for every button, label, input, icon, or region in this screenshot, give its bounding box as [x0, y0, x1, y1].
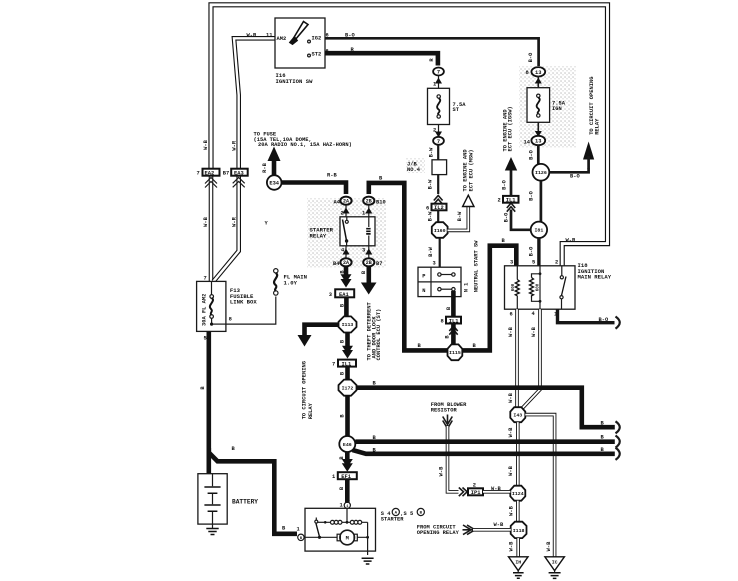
svg-text:W-B: W-B: [546, 541, 552, 551]
svg-text:IH: IH: [515, 559, 521, 565]
fusible link FL MAIN 1.0Y: [274, 269, 307, 296]
connector E34: [267, 175, 282, 190]
svg-text:W-B: W-B: [491, 486, 501, 492]
svg-text:I172: I172: [342, 385, 354, 391]
svg-text:2B: 2B: [366, 260, 372, 266]
ignition switch I16 box: [275, 18, 325, 68]
svg-text:20A RADIO NO.1, 15A HAZ-HORN): 20A RADIO NO.1, 15A HAZ-HORN): [258, 142, 352, 148]
svg-text:I115: I115: [449, 350, 461, 356]
pin stub arrows into starter relay: [343, 205, 373, 217]
wire B-W oval to J/B No.4: [428, 145, 438, 160]
hook 1: [616, 421, 620, 433]
wire R: ST2 to ST fuse oval: [325, 53, 438, 65]
node I172 octagon: [339, 380, 357, 396]
wire B-W J/B to IL2 with hollow arrow: [427, 175, 442, 205]
wire W-B I124 to I118: [508, 501, 518, 522]
F13 fusible link box: [197, 281, 226, 331]
svg-text:5: 5: [204, 336, 207, 342]
svg-text:AM2: AM2: [277, 36, 287, 42]
svg-text:5: 5: [532, 260, 535, 266]
battery: [198, 474, 258, 524]
wire B: F13 pin5 down, elbow right, down, right to starter terminal: [200, 331, 297, 533]
wire I172 to E46: [339, 396, 347, 437]
starter left terminal: [297, 527, 305, 541]
svg-text:2: 2: [498, 198, 501, 204]
branch I126 to circuit opening relay arrow: [549, 142, 594, 180]
node I126: [533, 164, 550, 181]
svg-text:I43: I43: [513, 413, 522, 419]
svg-text:B-W: B-W: [457, 211, 463, 221]
svg-text:RELAY: RELAY: [594, 118, 600, 135]
ignition main relay I18 box: [505, 260, 576, 318]
label IG2 6 B-O: [326, 33, 356, 39]
ignition switch wedge lever: [290, 22, 309, 45]
svg-text:7: 7: [437, 139, 440, 145]
ground IH: [509, 557, 529, 579]
label I16 IGNITION SW: [276, 72, 314, 85]
svg-text:RELAY: RELAY: [308, 402, 314, 419]
wire E46 to EF1 with double arrow: [339, 452, 353, 472]
wire I160 to neutral start sw: [428, 238, 440, 267]
label W-R 11 AM2: [247, 33, 273, 39]
starter internals: switch: [315, 518, 325, 539]
svg-text:M: M: [346, 536, 349, 542]
svg-text:B-O: B-O: [529, 190, 535, 200]
svg-text:IL1: IL1: [449, 318, 459, 324]
hook 2: [616, 436, 620, 448]
pin arrow down into oval 7 lower: [433, 125, 442, 138]
svg-text:8: 8: [229, 317, 232, 323]
starter relay label: [310, 227, 334, 240]
oval pin A4 2A: [334, 197, 352, 206]
oval pin 2B B10: [363, 197, 386, 206]
wire IL2 to I160: [428, 210, 439, 223]
svg-text:IL1: IL1: [342, 361, 352, 367]
svg-text:TO CIRCUIT OPENING: TO CIRCUIT OPENING: [302, 361, 308, 419]
svg-text:OPENING RELAY: OPENING RELAY: [417, 530, 460, 536]
svg-text:ST2: ST2: [312, 52, 322, 58]
wire I43 right down to ground IC: [525, 415, 554, 557]
svg-text:W-B: W-B: [494, 522, 504, 528]
svg-text:A4: A4: [334, 199, 341, 205]
svg-text:W-R: W-R: [231, 140, 237, 150]
label TO FUSE (15A TEL,10A DOME, 20A RADIO NO.1, 15A HAZ-HORN): [254, 132, 352, 149]
connector 8 IL1: [441, 317, 462, 335]
starter box: [305, 508, 376, 551]
svg-text:3: 3: [433, 261, 436, 267]
neutral start switch box: [418, 267, 461, 296]
connector 7 EA2: [197, 169, 220, 188]
connector 6 IL2: [426, 204, 447, 212]
fuse 7.5A IGN: [527, 88, 566, 123]
svg-text:I118: I118: [513, 528, 525, 534]
svg-text:B-W: B-W: [428, 147, 434, 157]
svg-text:I81: I81: [534, 228, 543, 234]
connector B7 EA3: [223, 169, 248, 188]
wire W-B: EA2 down to F13 pin 7: [209, 175, 214, 281]
svg-text:ECT ECU (MSW): ECT ECU (MSW): [469, 149, 475, 191]
svg-text:2: 2: [555, 260, 558, 266]
shading starter relay: [307, 198, 386, 268]
shading J/B No.4 label: [406, 158, 425, 173]
svg-text:8: 8: [441, 319, 444, 325]
wire battery positive tap: [207, 448, 212, 474]
svg-text:7: 7: [204, 276, 207, 282]
svg-text:7: 7: [437, 70, 440, 76]
starter relay coil: [366, 217, 370, 246]
oval connector 13 lower: [531, 136, 545, 145]
svg-text:I126: I126: [535, 170, 547, 176]
svg-text:W-R: W-R: [566, 238, 576, 244]
wire R-B: E34 to starter relay 2A: [282, 173, 347, 195]
svg-text:R-B: R-B: [327, 173, 337, 179]
relay switch: [560, 266, 566, 309]
wire B: E46 diagonal right to hook 3: [353, 447, 615, 454]
svg-text:1: 1: [362, 211, 365, 217]
ground IC: [545, 557, 565, 579]
wire B: I115 right bracket to relay pin 3: [462, 238, 516, 351]
node I118 octagon: [511, 522, 527, 538]
label TO ENGINE AND ECT ECU (MSW): [463, 149, 475, 192]
svg-text:B-W: B-W: [428, 246, 434, 256]
svg-text:2: 2: [341, 211, 344, 217]
svg-text:W-B: W-B: [508, 465, 514, 475]
label S 4 A ,S 5 B STARTER: [381, 508, 425, 522]
svg-text:E46: E46: [343, 442, 352, 448]
svg-text:7: 7: [332, 362, 335, 368]
svg-text:1: 1: [332, 474, 335, 480]
wire to circuit opening relay (left branch of I113): [298, 325, 339, 347]
svg-text:3: 3: [362, 248, 365, 254]
svg-text:EA2: EA2: [205, 170, 215, 176]
connector 7 IL1: [332, 360, 356, 368]
svg-text:IP1: IP1: [471, 490, 481, 496]
svg-text:I124: I124: [512, 491, 524, 497]
wire I113 to IL1 with double arrow: [339, 333, 353, 359]
svg-text:RELAY: RELAY: [310, 232, 327, 239]
svg-text:B-O: B-O: [528, 52, 534, 62]
wire NSW to IL1-8: [446, 291, 453, 317]
svg-text:B10: B10: [376, 199, 386, 205]
svg-text:W-B: W-B: [508, 326, 514, 336]
starter terminal 50 circle: [340, 500, 351, 509]
arrow from blower resistor (down): [443, 415, 453, 429]
wire B: EA1 to I113: [340, 297, 347, 317]
wire W-B IP1 to I124: [483, 486, 510, 492]
wire B: 2A to EA1 with double arrow: [340, 266, 352, 287]
svg-text:EA1: EA1: [339, 292, 349, 298]
wire B: I172 right, down, to hook 1: [357, 381, 615, 428]
svg-text:B-W: B-W: [428, 211, 434, 221]
starter relay switch: [343, 217, 349, 246]
svg-text:2: 2: [433, 128, 436, 134]
svg-text:IL1: IL1: [506, 198, 516, 204]
node I43 octagon: [510, 407, 525, 422]
node I113 octagon: [339, 316, 357, 332]
label W-R right wire: [231, 140, 237, 227]
svg-text:CONTROL ECU (ST): CONTROL ECU (ST): [376, 309, 382, 361]
label ST2 6 R: [326, 47, 355, 55]
svg-text:W-B: W-B: [438, 466, 444, 476]
svg-text:2A: 2A: [343, 260, 349, 266]
svg-text:8: 8: [526, 70, 529, 76]
svg-text:1: 1: [340, 503, 343, 509]
connector 2 IP1: [468, 482, 483, 496]
svg-text:IG2: IG2: [312, 36, 322, 42]
svg-text:B-O: B-O: [570, 174, 580, 180]
wire IL1 to I172: [340, 367, 348, 381]
wire B: E46 right to hook 2: [355, 435, 615, 442]
svg-text:1.0Y: 1.0Y: [284, 279, 298, 286]
svg-text:600: 600: [537, 283, 541, 291]
svg-text:W-B: W-B: [203, 139, 209, 149]
wire B-O relay pin1 to hook 4: [558, 309, 615, 323]
svg-text:P: P: [422, 273, 425, 279]
svg-text:MAIN RELAY: MAIN RELAY: [578, 274, 612, 281]
svg-text:6: 6: [426, 205, 429, 211]
svg-text:B-O: B-O: [503, 212, 509, 222]
svg-text:LINK BOX: LINK BOX: [230, 299, 257, 306]
svg-text:B-O: B-O: [529, 149, 535, 159]
starter relay box: [340, 211, 375, 254]
pin arrow down into oval 13 lower, pin 14: [524, 122, 542, 145]
label 7 / 5 / 8 F13 pins: [204, 276, 232, 342]
wire I118 to ground IH: [509, 538, 519, 557]
svg-text:14: 14: [524, 140, 531, 146]
label FROM CIRCUIT OPENING RELAY: [417, 525, 460, 536]
svg-text:7: 7: [197, 171, 200, 177]
svg-text:IC: IC: [552, 559, 558, 565]
wire W-R: AM2 to EA3: [234, 38, 275, 169]
svg-text:EF1: EF1: [341, 474, 351, 480]
svg-text:W-R: W-R: [231, 216, 237, 226]
label I18 IGNITION MAIN RELAY: [578, 262, 612, 281]
fuse 7.5A ST: [428, 88, 467, 124]
starter internals: solenoid coils: [324, 508, 368, 524]
oval connector 13 (IGN fuse top), pin 8: [526, 52, 546, 77]
svg-text:I113: I113: [342, 322, 354, 328]
svg-text:3: 3: [329, 292, 332, 298]
svg-text:W-B: W-B: [508, 392, 514, 402]
wire B: 2B down to theft deterrent arrow: [361, 266, 377, 294]
svg-text:B-O: B-O: [599, 317, 609, 323]
svg-text:W-B: W-B: [508, 505, 514, 515]
wire EF1 to starter: [339, 479, 347, 501]
svg-text:1: 1: [297, 527, 300, 533]
stray label Y: [265, 221, 269, 227]
svg-text:I160: I160: [434, 228, 446, 234]
svg-text:B4: B4: [333, 261, 340, 267]
wire F13 pin8 to FL MAIN: [226, 297, 276, 325]
svg-text:11: 11: [266, 33, 272, 39]
svg-text:N 1: N 1: [464, 283, 470, 293]
svg-text:NO.4: NO.4: [407, 167, 421, 173]
svg-text:W-B: W-B: [508, 427, 514, 437]
svg-text:B-W: B-W: [427, 179, 433, 189]
oval connector 7 lower: [433, 137, 444, 145]
oval connector 7 (ST fuse top): [433, 68, 444, 76]
shading ign fuse: [519, 66, 576, 148]
branch I160 to MSW arrow: [448, 195, 475, 230]
wire W-B relay pin 4 down diagonal to I43: [522, 309, 540, 408]
svg-text:W-B: W-B: [531, 326, 537, 336]
connector 3 EA1: [329, 289, 354, 298]
pin arrow up into oval 7: [433, 76, 442, 88]
svg-text:13: 13: [535, 70, 541, 76]
svg-text:R-B: R-B: [262, 162, 268, 172]
relay coil 2 with resistor: [530, 266, 542, 309]
svg-text:IGNITION SW: IGNITION SW: [276, 78, 314, 85]
svg-text:N: N: [422, 288, 425, 294]
label N 1 NEUTRAL START SW: [464, 240, 480, 293]
oval pin 2B B7 bottom: [363, 246, 382, 267]
relay coil 1: [512, 266, 519, 309]
svg-text:E34: E34: [269, 181, 279, 187]
ground battery: [206, 524, 218, 534]
label TO THEFT DETERRENT AND DOOR LOCK CONTROL ECU (ST): [367, 302, 383, 361]
label W-R near relay: [566, 238, 576, 244]
svg-text:ST: ST: [453, 107, 460, 113]
starter internals: motor M: [304, 522, 369, 555]
svg-text:2A: 2A: [343, 199, 349, 205]
svg-text:1: 1: [433, 82, 436, 88]
arrow from circuit opening relay (right): [463, 525, 476, 535]
wire B-O I81 to relay pin 5: [529, 238, 539, 266]
arrow to fuse (up): [262, 147, 281, 178]
wire W-R loop: EA2 up, across top, down right side, to ignition main relay pin 2: [211, 5, 608, 266]
svg-text:W-R: W-R: [247, 33, 257, 39]
label W-B left wire: [203, 139, 209, 226]
connector 2 IL1: [498, 196, 519, 204]
svg-text:30A FL AM2: 30A FL AM2: [202, 294, 208, 326]
node I81: [531, 222, 547, 238]
svg-text:3: 3: [510, 260, 513, 266]
wire B-O oval 13 to I126: [529, 145, 539, 165]
svg-text:13: 13: [535, 139, 541, 145]
svg-text:W-B: W-B: [203, 216, 209, 226]
oval pin B4 2A bottom: [333, 246, 352, 267]
J/B No.4 box: [407, 160, 447, 175]
label TO ENGINE AND ECT ECU (IGSW): [502, 106, 513, 151]
svg-text:B-O: B-O: [501, 179, 507, 189]
svg-text:ECT ECU (IGSW): ECT ECU (IGSW): [508, 106, 514, 151]
wire B-O: IG2 to IGN fuse oval: [325, 38, 539, 66]
svg-text:STARTER: STARTER: [381, 517, 404, 523]
label TO CIRCUIT OPENING RELAY (left): [302, 361, 314, 419]
svg-text:W-B: W-B: [509, 541, 515, 551]
svg-text:6: 6: [510, 312, 513, 318]
wire W-B relay pin 6 down to I43: [508, 309, 517, 407]
svg-text:NEUTRAL START SW: NEUTRAL START SW: [473, 240, 479, 293]
wire B-O I126 to I81: [529, 181, 541, 222]
svg-text:2B: 2B: [366, 199, 372, 205]
svg-text:B-O: B-O: [529, 246, 535, 256]
starter ground: [362, 558, 374, 564]
node I160 octagon: [432, 222, 448, 238]
connector 1 EF1: [332, 472, 357, 480]
svg-text:2: 2: [473, 482, 476, 488]
wire B: starter relay 2B up over to right and down to I115: [369, 176, 448, 351]
wire W-R: EA3 down, diagonal to F13 pin 7: [214, 175, 239, 281]
branch I81 left to IL1-2 and IGSW arrow: [503, 203, 530, 230]
svg-text:BATTERY: BATTERY: [232, 499, 258, 506]
hook 3: [616, 448, 620, 460]
hook 4: [616, 317, 620, 329]
svg-text:EA3: EA3: [234, 170, 244, 176]
node I124 octagon: [510, 486, 525, 501]
wire IL1-8 to I115: [445, 324, 454, 346]
pin arrow into fuse IGN: [535, 76, 542, 88]
chevrons into IP1: [459, 488, 467, 497]
svg-text:600: 600: [512, 283, 516, 291]
node I115 octagon: [448, 344, 463, 360]
svg-text:B7: B7: [223, 171, 229, 177]
wire IL1-2 up to IGSW arrow: [501, 157, 517, 196]
wire W-B from circuit opening relay to I118: [473, 522, 511, 530]
node E46: [339, 436, 355, 452]
label TO CIRCUIT OPENING RELAY (right): [589, 77, 600, 135]
svg-text:IGN: IGN: [552, 106, 562, 112]
svg-text:B7: B7: [376, 261, 382, 267]
wire W-B blower resistor to IP1: [438, 426, 458, 492]
wire W-B I43 down to I124: [508, 422, 518, 486]
label FROM BLOWER RESISTOR: [431, 402, 467, 413]
label F13 FUSIBLE LINK BOX: [230, 287, 257, 306]
svg-text:RESISTOR: RESISTOR: [431, 408, 458, 414]
